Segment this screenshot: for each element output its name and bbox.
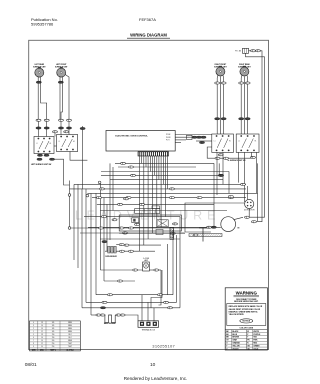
svg-text:105: 105 [52, 322, 55, 324]
svg-text:150: 150 [52, 337, 55, 339]
svg-text:BLACK: BLACK [232, 330, 239, 333]
svg-text:GOLD: GOLD [253, 348, 259, 350]
svg-text:GREEN: GREEN [253, 345, 260, 347]
svg-text:YELLOW STRIPE.: YELLOW STRIPE. [229, 314, 245, 316]
svg-text:200: 200 [52, 340, 55, 342]
svg-text:DOOR MOTOR: DOOR MOTOR [244, 210, 255, 212]
svg-text:SF-2: SF-2 [68, 334, 71, 336]
svg-text:10: 10 [41, 346, 43, 348]
svg-text:10: 10 [150, 362, 156, 368]
svg-text:GAUGE FIRST, STRIPE 2ND COLOR: GAUGE FIRST, STRIPE 2ND COLOR [229, 308, 261, 311]
svg-text:H1: H1 [229, 141, 231, 143]
svg-text:ELECTRONIC OVEN CONTROL: ELECTRONIC OVEN CONTROL [115, 136, 148, 138]
svg-text:SRML: SRML [68, 325, 72, 327]
svg-text:150: 150 [52, 334, 55, 336]
svg-text:WIRING DIAGRAM: WIRING DIAGRAM [130, 33, 167, 38]
svg-text:L1: L1 [59, 141, 61, 143]
svg-text:16: 16 [41, 337, 43, 339]
svg-text:250: 250 [52, 346, 55, 348]
svg-text:WHITE: WHITE [253, 331, 259, 333]
svg-text:250: 250 [52, 343, 55, 345]
svg-text:18: 18 [41, 334, 43, 336]
svg-text:P9 1 BK: P9 1 BK [235, 51, 242, 53]
svg-text:UL STYLE: UL STYLE [66, 349, 73, 351]
svg-text:ORANGE: ORANGE [232, 342, 240, 345]
svg-text:105: 105 [52, 325, 55, 327]
svg-text:TGGT: TGGT [68, 346, 72, 348]
svg-text:BROWN: BROWN [232, 337, 239, 339]
svg-text:H1: H1 [50, 143, 52, 145]
svg-text:VIOLET: VIOLET [232, 348, 239, 350]
svg-text:SRML: SRML [68, 322, 72, 324]
svg-text:EXAMPLE: GREEN WIRE WITH A: EXAMPLE: GREEN WIRE WITH A [229, 310, 259, 313]
svg-text:14: 14 [41, 340, 43, 342]
svg-text:18: 18 [41, 322, 43, 324]
svg-text:WIRE: WIRE [32, 349, 36, 351]
svg-text:Rendered by LeadVenture, Inc.: Rendered by LeadVenture, Inc. [124, 376, 188, 381]
svg-text:M: M [238, 228, 240, 230]
svg-text:H1: H1 [73, 141, 75, 143]
svg-text:PURPLE: PURPLE [253, 334, 261, 336]
svg-text:COLOR CODE: COLOR CODE [240, 328, 254, 330]
svg-text:12: 12 [41, 331, 43, 333]
svg-text:SRML: SRML [68, 328, 72, 330]
svg-text:LEFT SURFACE UNIT SW: LEFT SURFACE UNIT SW [31, 163, 52, 166]
svg-text:14: 14 [41, 328, 43, 330]
svg-text:TGGT: TGGT [68, 343, 72, 345]
svg-text:OVEN SENSOR: OVEN SENSOR [105, 256, 118, 258]
svg-text:H1: H1 [255, 141, 257, 143]
svg-text:08/01: 08/01 [25, 362, 37, 368]
svg-text:BEFORE SERVICING UNIT.: BEFORE SERVICING UNIT. [234, 301, 259, 303]
svg-text:2x SURFACE UNIT SW: 2x SURFACE UNIT SW [227, 159, 245, 162]
svg-text:SRGK: SRGK [68, 340, 72, 342]
svg-text:YELLOW: YELLOW [232, 345, 240, 347]
svg-text:L1: L1 [238, 141, 240, 143]
svg-text:L1: L1 [214, 141, 216, 143]
svg-text:12: 12 [41, 343, 43, 345]
svg-text:16: 16 [41, 325, 43, 327]
svg-text:WARNING: WARNING [236, 290, 258, 295]
svg-text:FEF367A: FEF367A [139, 17, 156, 22]
svg-text:2x OVEN: 2x OVEN [143, 258, 149, 260]
svg-text:5995357786: 5995357786 [31, 22, 54, 27]
svg-text:105: 105 [52, 331, 55, 333]
svg-text:316255107: 316255107 [152, 344, 175, 349]
svg-text:REPLACE WIRES WITH SAME COLOR: REPLACE WIRES WITH SAME COLOR [229, 305, 263, 308]
svg-text:L1: L1 [36, 143, 38, 145]
svg-text:NOTICE: NOTICE [243, 321, 251, 323]
svg-text:TEMP°C: TEMP°C [50, 349, 57, 351]
svg-text:SF-2: SF-2 [68, 337, 71, 339]
svg-text:105: 105 [52, 328, 55, 330]
svg-text:SRML: SRML [68, 331, 72, 333]
